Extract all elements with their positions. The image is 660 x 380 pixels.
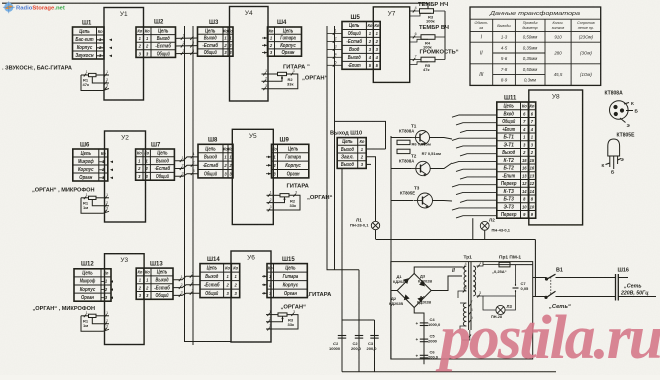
resistor R7	[397, 149, 410, 153]
wire R-bot left lead	[81, 315, 89, 317]
transistor Т1	[412, 131, 430, 146]
wire Ш2 row 1 to Ш3	[176, 37, 198, 39]
resistor R2	[278, 72, 287, 75]
wire R2 mid loop	[267, 195, 301, 210]
amplifier block У4	[230, 7, 269, 102]
junction tick Ш5-1	[333, 29, 337, 35]
wire pot R5 wiper	[410, 62, 428, 65]
wire Ш10 down to capacitor bus	[341, 168, 343, 371]
wire С2 drop	[358, 270, 360, 372]
transistor Т3	[414, 193, 433, 209]
wire R-mid bottom loop	[81, 198, 109, 214]
connector Ш16	[616, 274, 619, 301]
capacitor С7	[513, 284, 519, 292]
pin arrow Ш4-1	[264, 37, 267, 40]
wire Ш16 right a	[618, 277, 628, 279]
wire У5 to Ш9 row 1	[266, 156, 272, 158]
connector Ш7	[136, 149, 175, 180]
wire С3 drop	[374, 320, 376, 372]
potentiometer R4 tembr vch	[421, 35, 435, 40]
wire Ш7 row 2 to Ш8	[174, 165, 198, 168]
wire pot R4 wiper	[410, 39, 428, 42]
connector Ш8	[198, 144, 233, 178]
pin tick У3 in1	[104, 311, 108, 317]
pin tick У7 p4	[413, 6, 417, 12]
pin tick R3 right	[291, 310, 295, 316]
capacitor С5	[420, 339, 428, 342]
wire С7 down	[483, 292, 516, 296]
connector Ш4	[268, 27, 302, 56]
wire R1 to У1 pin	[96, 74, 109, 76]
wire bus to Ш5 row 4	[327, 56, 342, 58]
junction tick Ш5-2	[333, 37, 337, 43]
wire output box left edge	[390, 136, 392, 359]
wire У4 to Ш4 row 3	[262, 52, 268, 54]
pin tick У4 r3	[263, 84, 267, 90]
pin arrow У3 input 1	[110, 280, 113, 283]
potentiometer R3 tembr nch	[420, 9, 434, 14]
wire bus to Ш5 row 3	[327, 48, 342, 50]
wire Ш13 row 1 to Ш14	[173, 276, 200, 280]
transistor package КТ808А top view	[610, 101, 634, 123]
logo RadioStorage.net	[3, 1, 65, 13]
pin arrow Ш4-2	[264, 44, 267, 47]
potentiometer R5 volume	[421, 57, 435, 62]
wire middle cable bus line 2	[334, 26, 336, 270]
wire top supply bus	[2, 2, 428, 4]
wire R3 loop	[266, 315, 298, 329]
wire Ш11 bottom to run	[472, 218, 474, 239]
junction tick Ш13-2	[179, 283, 183, 289]
wire Ш12 pin 1 to У3	[101, 281, 105, 283]
pin arrow У3 input 2	[110, 288, 113, 291]
pin tick R2 right	[291, 69, 295, 75]
wire Ш10 row1 right	[366, 148, 385, 150]
junction tick Ш3in-3	[190, 49, 194, 55]
wire У7 to pot R3	[410, 10, 420, 12]
wire box to switch b	[533, 296, 546, 298]
wire Ш1 pin 3 to У1	[97, 55, 104, 57]
wire У7 output down	[335, 121, 386, 149]
pin tick w4	[463, 262, 467, 268]
pin tick У6 r3	[267, 324, 271, 330]
pin arrow У2 input 3	[110, 177, 113, 180]
tone block У7	[373, 7, 409, 83]
wire Ш7 row 1 to Ш8	[174, 157, 198, 161]
wire bridge bottom to caps	[414, 308, 424, 318]
junction tick Ш14-3	[190, 289, 194, 295]
junction tick Ш3in-1	[190, 34, 194, 40]
wire pot R4 to loop	[435, 36, 445, 38]
wire Ш2 row 2 to Ш3	[176, 45, 198, 47]
wire top bus to pot R3	[427, 3, 429, 9]
wire Ш13 row 3 to Ш14	[173, 293, 200, 295]
junction tick Ш2-2	[181, 41, 185, 47]
wire R1 tap branch	[92, 77, 109, 83]
wire С7 up	[515, 265, 517, 284]
pin arrow У1 input 1	[109, 39, 112, 42]
wire Л3 left	[483, 296, 496, 310]
amplifier block У5	[232, 129, 273, 224]
connector Ш14	[200, 264, 240, 298]
pin tick w8	[469, 308, 473, 314]
connector Ш2	[136, 27, 176, 57]
pin arrow Ш15-2	[264, 284, 267, 287]
pin 1 tick У1 aux	[84, 70, 88, 76]
lamp Л3	[496, 305, 505, 314]
wire bus to Ш5 row 5	[327, 64, 342, 66]
junction tick Ш8-1	[191, 152, 195, 158]
capacitor С3	[370, 336, 378, 339]
wire R1 bottom loop	[81, 75, 109, 91]
connector Ш13	[136, 268, 173, 299]
pin arrow У1 input 2	[109, 47, 112, 50]
wire Ш13 row 2 to Ш14	[173, 285, 200, 288]
svg-text:postila.ru: postila.ru	[435, 304, 660, 372]
resistor R1 mid	[89, 196, 97, 199]
wire У4 pin to R2 tap	[262, 76, 283, 82]
wire У6 to Ш15 row 1	[262, 275, 267, 277]
wire R-bot tap branch	[92, 318, 109, 324]
wire winding II top tap	[462, 266, 463, 268]
junction tick Ш2-1	[181, 34, 185, 40]
lamp Л2	[480, 221, 489, 230]
wire Ш6 pin 3 to У2	[99, 177, 105, 179]
resistor R6	[397, 140, 410, 144]
junction tick Ш8-2	[191, 161, 195, 167]
amplifier block У3	[105, 254, 145, 345]
pin tick У1 aux in1	[104, 70, 108, 76]
wire Т1 emitter to fan	[430, 138, 453, 140]
resistor R2 mid	[280, 194, 289, 197]
wire lamp Л2 drop	[484, 230, 486, 239]
pin arrow У2 input 2	[110, 169, 113, 172]
pin tick w1	[477, 261, 481, 267]
pin tick У5 r3	[268, 205, 272, 211]
wire У4 pin to R2 left	[262, 73, 278, 75]
wire Ш10 row2 to lamp	[366, 157, 375, 222]
junction tick Ш14-1	[190, 272, 194, 278]
pin tick w5	[463, 286, 467, 292]
resistor R1 bottom	[89, 314, 97, 317]
wire R-bot to У3	[96, 315, 109, 317]
connector Ш12	[74, 269, 111, 301]
capacitor С1	[338, 336, 346, 339]
pin arrow У1 input 3	[109, 55, 112, 58]
wire winding II bottom	[458, 291, 466, 298]
wire У7 to pot R4	[410, 36, 421, 38]
pin tick У2 in3	[104, 207, 108, 213]
capacitor С6	[420, 355, 428, 358]
capacitor С4	[420, 323, 428, 326]
pin tick w3	[477, 291, 481, 297]
wire Ш10 row3 stub	[366, 163, 371, 165]
wire switch to Ш16 b	[556, 296, 616, 298]
amplifier block У2	[105, 131, 146, 222]
wire bus to Ш5 row 1	[327, 32, 342, 34]
pin tick У3 in3	[104, 325, 108, 331]
wire pot return vertical	[444, 11, 446, 60]
pin arrow У2 input 1	[110, 161, 113, 164]
wire Ш16 right b	[618, 296, 656, 298]
wire winding III bottom	[460, 326, 466, 330]
switch В1	[545, 274, 556, 298]
pin tick У1 aux in3	[104, 84, 108, 90]
pin tick У6 r1	[267, 310, 271, 316]
junction tick Ш3in-2	[190, 41, 194, 47]
wire winding I top	[477, 262, 484, 266]
junction tick Ш5-3	[333, 45, 337, 51]
capacitor С2	[355, 336, 363, 339]
pin arrow Ш15-1	[264, 275, 267, 278]
wire left cable bus line 2	[192, 26, 194, 345]
wire У5 pin to R2 mid	[267, 194, 281, 196]
transformer winding III	[463, 303, 466, 326]
transformer winding I secondary	[473, 266, 475, 296]
wire У5 pin to R2 mid tap	[267, 197, 285, 203]
connector Ш9	[272, 144, 309, 178]
wire middle cable bus line 1	[327, 26, 359, 270]
resistor R1	[89, 73, 97, 76]
wire PSU caps column	[423, 318, 425, 365]
wire fuse to feed line	[510, 264, 533, 266]
wire У5 to Ш9 row 2	[266, 164, 272, 166]
connector Ш15	[267, 264, 307, 298]
wire bridge right	[431, 276, 462, 291]
wire R1 left lead	[81, 74, 89, 76]
wire У7 to pot R5	[410, 59, 421, 61]
pin tick У2 in1	[104, 193, 108, 199]
wire Т1 base	[391, 137, 412, 139]
wire Ш6 pin 2 to У2	[99, 169, 105, 171]
junction tick Ш5-4	[333, 53, 337, 59]
wires transistor leads to Ш11 rows	[452, 115, 497, 218]
wire У6 pin to R3	[266, 314, 278, 316]
pin arrow Ш4-3	[264, 51, 267, 54]
wire winding III top	[460, 302, 466, 304]
output block У8	[529, 90, 583, 225]
amplifier block У6	[231, 251, 271, 342]
wire R2 loop	[262, 74, 298, 89]
pin tick У5 r1	[268, 191, 272, 197]
wire feed down to switch	[534, 240, 536, 297]
wire Т2 base	[391, 168, 412, 170]
connector Ш3	[198, 27, 234, 56]
pin arrow У3 input 3	[110, 296, 113, 299]
wire bridge top to transformer	[414, 267, 462, 274]
junction tick Ш13-3	[179, 291, 183, 297]
junction tick Ш8-3	[191, 169, 195, 175]
pin tick У2 aux	[84, 193, 88, 199]
resistor R3 bottom	[278, 313, 287, 316]
wire bottom bus	[342, 371, 556, 373]
wire У4 to Ш4 row 1	[262, 37, 268, 39]
wire Ш12 pin 3 to У3	[101, 297, 105, 299]
junction tick Ш7-1	[180, 156, 184, 162]
wire Ш12 pin 2 to У3	[101, 289, 105, 291]
pin tick У7 p7	[413, 55, 417, 61]
wire box to switch a	[533, 277, 547, 279]
wire Т3 collector to fan	[433, 200, 453, 203]
wire Ш7 row 3 to Ш8	[174, 174, 198, 177]
junction tick Ш2-3	[181, 49, 185, 55]
wire R-mid left lead	[81, 197, 89, 199]
wire bus to Ш5 row 2	[327, 40, 342, 42]
wire У4 to Ш4 row 2	[262, 44, 268, 46]
pin tick У4 r1	[263, 69, 267, 75]
wire Т2 collector to fan	[430, 163, 452, 169]
pin arrow Ш15-3	[264, 292, 267, 295]
bridge rectifier Д1-Д4	[397, 274, 431, 308]
junction tick Ш7-2	[180, 164, 184, 170]
core tick	[469, 335, 471, 338]
junction tick Ш5-5	[333, 61, 337, 67]
wire left cable bus line 1	[185, 26, 232, 342]
wire У6 to Ш15 row 2	[262, 284, 267, 286]
wire pot R3 to loop	[434, 10, 446, 12]
transformer data table	[470, 7, 601, 85]
amplifier block У1	[104, 8, 144, 101]
wire R-mid tap branch	[92, 200, 109, 206]
wire R-mid to У2	[96, 197, 109, 199]
connector Ш10	[337, 138, 366, 169]
wire Ш1 pin 1 to У1	[97, 39, 104, 41]
wire У5 to Ш9 row 3	[266, 173, 272, 175]
power supply enclosure	[391, 262, 533, 359]
wire capacitor top bus	[342, 319, 375, 321]
wire lamp Л1 drop	[375, 230, 377, 240]
wire У6 to Ш15 row 3	[262, 292, 267, 294]
wire pot R5 to loop	[435, 59, 445, 61]
transformer winding II primary	[464, 266, 466, 291]
wire Ш1 pin 2 to У1	[97, 47, 104, 49]
svg-text:RadioStorage.net: RadioStorage.net	[16, 5, 65, 11]
pin tick У2 in2	[104, 201, 108, 207]
pin arrow Ш9-2	[268, 164, 271, 167]
pin tick У7 p6	[413, 32, 417, 38]
wire bottom run y239	[376, 239, 535, 241]
wire Ш6 pin 1 to У2	[99, 161, 105, 163]
wire Ш2 row 3 to Ш3	[176, 52, 198, 54]
wire winding I bottom	[477, 295, 484, 297]
wire pot R3 wiper	[410, 13, 431, 16]
pin tick У6 r2	[267, 317, 271, 323]
wire Л3 right	[505, 296, 515, 310]
connector Ш6	[73, 149, 108, 181]
pin tick У5 r2	[268, 198, 272, 204]
pin tick У4 r2	[263, 77, 267, 83]
connector Ш11	[497, 102, 536, 218]
junction tick Ш14-2	[190, 280, 194, 286]
transistor package КТ805Е side view	[606, 139, 622, 169]
pin tick R2 mid right	[293, 191, 297, 197]
wire core ground	[462, 330, 470, 340]
connector Ш1	[73, 27, 105, 59]
pin tick w7	[469, 300, 473, 306]
junction tick Ш7-3	[180, 172, 184, 178]
transistor Т2	[412, 161, 430, 176]
pin tick У3 aux	[84, 311, 88, 317]
fuse Пр1	[499, 262, 510, 267]
wire R-bot bottom loop	[81, 316, 109, 332]
pin tick У1 aux in2	[104, 78, 108, 84]
wire switch to Ш16 a	[556, 277, 616, 279]
pin arrow Ш9-1	[268, 156, 271, 159]
transformer Тр1 core	[469, 262, 471, 330]
pin tick У3 in2	[104, 319, 108, 325]
connector Ш5	[342, 22, 380, 70]
wire winding I to fuse	[483, 264, 499, 266]
wire bridge left	[391, 290, 397, 292]
wire У6 pin to R3 tap	[266, 316, 283, 322]
lamp Л1	[371, 221, 379, 229]
junction tick Ш13-1	[179, 275, 183, 281]
wire Т3 base	[391, 200, 413, 202]
pin arrow Ш9-3	[268, 172, 271, 175]
pin tick w9	[469, 316, 473, 322]
